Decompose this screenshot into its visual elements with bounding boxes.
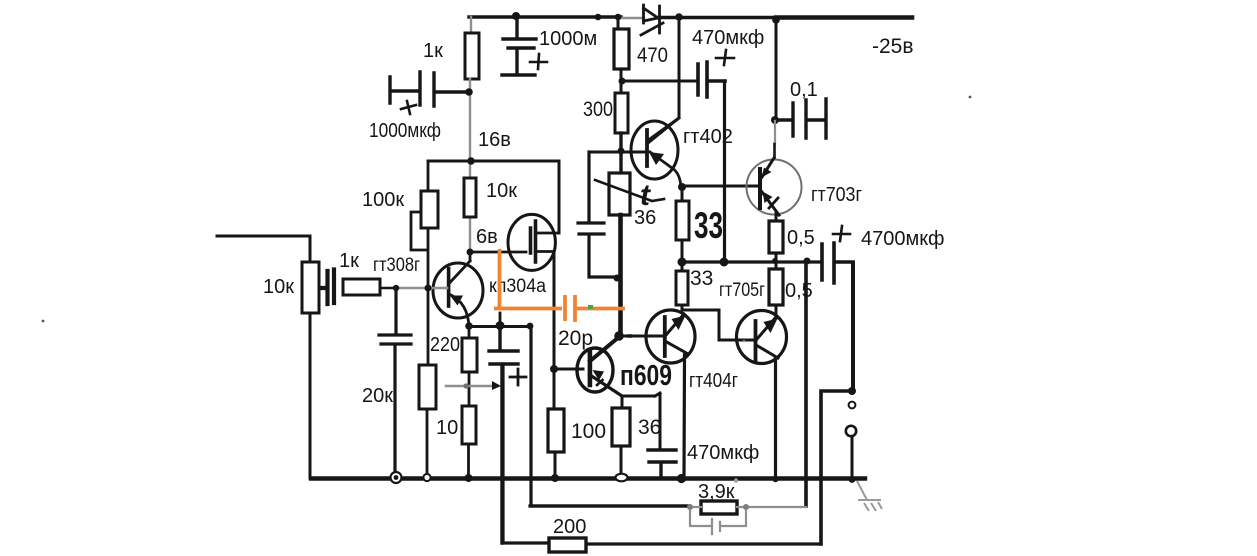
wire gt705g emitter down to rail: [774, 358, 777, 478]
wire base lead gt402: [589, 151, 647, 154]
wire jack to rail: [851, 437, 854, 478]
wire gt404g emitter down to rail: [682, 355, 686, 478]
svg-text:20p: 20p: [558, 327, 593, 350]
svg-text:-25в: -25в: [872, 35, 914, 58]
transistor Q gt402: [631, 118, 681, 187]
svg-text:10к: 10к: [263, 276, 294, 298]
node dot 6v: [467, 249, 474, 256]
node dot 0,1 junction: [771, 116, 779, 124]
svg-text:36: 36: [634, 207, 656, 229]
node dot top rail x516: [512, 12, 520, 20]
wire 300 bottom to base node: [619, 133, 622, 173]
wire emitter gt308g rail: [468, 325, 531, 328]
jack contact small: [849, 402, 856, 409]
svg-text:100: 100: [571, 420, 606, 443]
node dot top rail x679: [675, 13, 683, 21]
resistor R 36 bottom: [612, 408, 630, 446]
wire 1k top stem: [470, 17, 472, 33]
svg-text:20к: 20к: [362, 385, 393, 407]
speck left: [42, 320, 45, 323]
rail open node 20k: [423, 474, 430, 481]
wire fet source down to p609 base: [553, 252, 556, 410]
node dot base gt402: [618, 148, 625, 155]
wire 33 stems: [681, 186, 684, 262]
svg-text:гт703г: гт703г: [811, 184, 862, 206]
orange wire feedback cap: [494, 249, 625, 322]
rail bullseye node: [391, 472, 402, 483]
resistor R 33 lower: [676, 271, 688, 305]
wire 200 bottom run: [503, 364, 821, 544]
green tick on orange: [588, 305, 593, 309]
wire grey 0,1 node to gt703g: [774, 121, 776, 144]
node dot gt402 emitter: [678, 183, 686, 191]
resistor R 300: [615, 93, 628, 133]
resistor R 10: [462, 406, 476, 444]
resistor R 200: [549, 538, 586, 552]
node dot 16v: [467, 157, 475, 165]
node dot cap return: [614, 275, 621, 282]
wire 20k stems: [427, 288, 428, 473]
speck mid: [743, 340, 745, 342]
resistor R 3,9k: [701, 501, 737, 514]
node grey dot left: [687, 504, 693, 510]
node dot at 1k/cap junction: [465, 88, 473, 96]
node dot bypass top: [496, 321, 505, 330]
svg-text:1000мкф: 1000мкф: [369, 120, 441, 142]
rail dot x555: [551, 474, 559, 482]
svg-text:0,5: 0,5: [785, 280, 813, 302]
resistor R 100: [548, 409, 564, 452]
svg-text:0,5: 0,5: [787, 227, 815, 249]
svg-text:33: 33: [694, 205, 723, 246]
capacitor C 4700mkf: [822, 243, 853, 283]
capacitor C 470mkf bottom: [648, 450, 676, 477]
transistor Q gt308g: [433, 252, 483, 327]
capacitor C parallel 3,9k grey: [690, 510, 746, 534]
plus sign of 1000mkf: [401, 101, 416, 114]
svg-text:470: 470: [637, 44, 668, 67]
svg-text:36: 36: [638, 416, 661, 439]
wire base lead gt703g: [682, 185, 760, 188]
plus sign of 470mkf: [716, 50, 734, 65]
svg-text:1000м: 1000м: [539, 28, 597, 50]
input wire: [217, 236, 310, 262]
wire 470 resistor stem: [617, 17, 620, 29]
wire node to gt404g base: [619, 335, 664, 338]
diode at top rail: [641, 5, 663, 35]
wire 16v rail: [428, 161, 559, 233]
svg-text:470мкф: 470мкф: [692, 27, 764, 49]
wire 33 lower stems and elbow to gt705g base: [682, 262, 755, 340]
transistor Q gt404g: [646, 310, 695, 363]
node dot output x807: [804, 258, 811, 265]
speck right: [969, 96, 972, 99]
wire p609 base lead: [554, 368, 583, 371]
svg-text:п609: п609: [620, 360, 672, 392]
resistor R 33 upper: [676, 201, 689, 240]
resistor R 20k: [419, 365, 436, 409]
wire 0,5 lower stems: [775, 262, 778, 318]
resistor R 0,5 lower: [769, 269, 783, 305]
resistor R 10k middle: [464, 178, 476, 217]
resistor R 1k input: [343, 279, 380, 295]
wire 100k stems and wiper loop: [411, 161, 428, 288]
svg-text:10: 10: [436, 417, 458, 439]
resistor R 470: [614, 29, 629, 69]
wire grey 3,9k leads: [689, 506, 806, 508]
svg-text:200: 200: [553, 516, 586, 538]
grey dot rail x736: [734, 478, 738, 482]
resistor R 1k (top): [465, 33, 479, 79]
node dot output x775: [772, 258, 778, 264]
ground symbol: [857, 481, 882, 511]
svg-text:0,1: 0,1: [790, 79, 818, 101]
wire 36 stem: [620, 446, 623, 473]
rail open ellipse 36: [616, 474, 628, 482]
wire node to 470mkf cap: [622, 80, 697, 83]
node dot base x428: [425, 285, 432, 292]
node dot top rail x776: [772, 16, 780, 24]
svg-text:300: 300: [583, 98, 613, 121]
svg-text:гт402: гт402: [683, 126, 733, 148]
capacitor C 0,1: [775, 99, 826, 138]
resistor R 0,5 upper: [769, 221, 783, 253]
svg-text:4700мкф: 4700мкф: [861, 228, 944, 250]
svg-text:100к: 100к: [362, 189, 404, 211]
node dot top rail x598: [595, 14, 602, 21]
wire 3.9k line left part: [531, 504, 689, 507]
wire 200 feedback riser x821: [821, 391, 852, 544]
resistor R 220: [462, 338, 477, 372]
wire grey stem below 1k: [469, 79, 471, 252]
rail dot x681: [677, 474, 686, 483]
capacitor C 1000m: [502, 17, 536, 75]
green tick on node: [627, 334, 632, 338]
plus sign of 1000m: [530, 54, 547, 69]
wire 0,5 upper stems: [775, 213, 778, 261]
transistor Q gt705g: [737, 311, 787, 364]
rail dot x775: [772, 476, 778, 482]
wire collector drop x679: [650, 17, 679, 139]
wire output rail: [682, 260, 821, 263]
node dot feedback corner: [527, 323, 534, 330]
arrowhead tap: [492, 381, 501, 390]
node dot output x724: [720, 258, 729, 267]
node dot p609 base: [550, 365, 558, 373]
wire 4700mkf down x853: [851, 263, 855, 391]
transistor U kp304a fet: [508, 214, 559, 270]
node dot top rail x618: [615, 14, 622, 21]
plus sign bypass: [510, 369, 526, 385]
capacitor C emitter bypass electrolytic: [489, 326, 518, 543]
svg-text:10к: 10к: [486, 180, 517, 202]
wire output down x806 to feedback: [804, 262, 808, 506]
wire 1k to base: [380, 287, 398, 290]
pot wiper bars: [320, 270, 334, 305]
wire p609 emitter to 36 and cap: [622, 393, 660, 450]
wire grey tap 220-10 junction: [446, 385, 494, 387]
svg-text:гт308г: гт308г: [373, 255, 420, 276]
potentiometer R 10k input: [302, 262, 319, 313]
wire gate lead fet: [471, 251, 526, 254]
node dot base x396: [393, 285, 399, 291]
transistor Q gt703g: [747, 158, 802, 215]
rail dot x852: [849, 476, 856, 483]
node dot p609 collector: [614, 331, 624, 341]
jack contact big: [846, 426, 856, 436]
svg-text:гт404г: гт404г: [689, 370, 738, 392]
wire stub above bypass node: [499, 313, 502, 326]
svg-text:3,9к: 3,9к: [698, 481, 735, 503]
thermistor body 36: [609, 173, 630, 215]
resistor R 100k: [421, 191, 438, 228]
wire feedback emitter down: [530, 326, 689, 506]
svg-text:16в: 16в: [478, 129, 511, 151]
ground rail bottom: [311, 476, 865, 480]
wire 220 10 stems: [467, 327, 470, 478]
wire pot bottom: [309, 313, 312, 478]
svg-text:6в: 6в: [476, 226, 498, 248]
capacitor 1000mkf input: [390, 72, 466, 106]
rail dot x468: [465, 474, 473, 482]
capacitor C base bypass: [578, 152, 614, 277]
transistor Q p609: [577, 337, 622, 396]
node dot x622 y81: [619, 78, 626, 85]
node grey dot right: [743, 504, 749, 510]
plus sign 4700mkf: [833, 226, 850, 241]
node dot output x682: [678, 258, 687, 267]
wire 470 to 300 with node: [620, 69, 623, 93]
capacitor C input shunt: [379, 288, 411, 474]
svg-text:220: 220: [430, 334, 460, 356]
svg-text:33: 33: [690, 267, 713, 290]
svg-text:1к: 1к: [423, 40, 443, 62]
wire 100 stem: [554, 452, 557, 478]
capacitor C 470mkf top: [698, 62, 725, 97]
node dot jack: [848, 387, 856, 395]
wire top supply rail: [469, 15, 776, 19]
wire grey base segment: [398, 287, 447, 290]
wire 470mkf down to output node: [723, 81, 726, 262]
wire thick driver collector line: [618, 215, 623, 336]
svg-text:470мкф: 470мкф: [687, 442, 759, 464]
thermistor slash: [595, 180, 664, 201]
svg-text:1к: 1к: [339, 250, 359, 272]
wire x776 top to 0,1 node: [775, 18, 778, 120]
svg-text:гт705г: гт705г: [719, 280, 765, 301]
node dot emitter: [465, 322, 473, 330]
